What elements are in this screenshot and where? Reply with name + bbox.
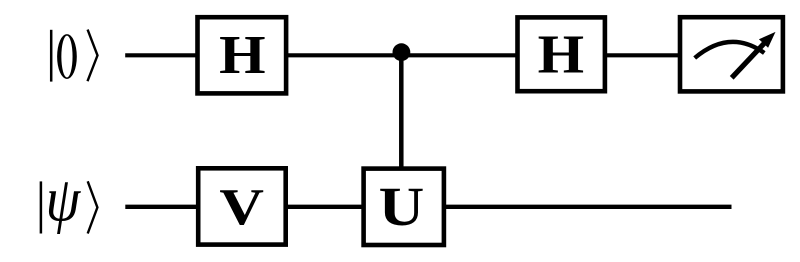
svg-text:H: H (219, 25, 265, 85)
svg-text:V: V (219, 178, 264, 235)
svg-text:U: U (379, 176, 425, 237)
svg-text:H: H (538, 25, 584, 85)
svg-text:ψ: ψ (46, 164, 81, 234)
